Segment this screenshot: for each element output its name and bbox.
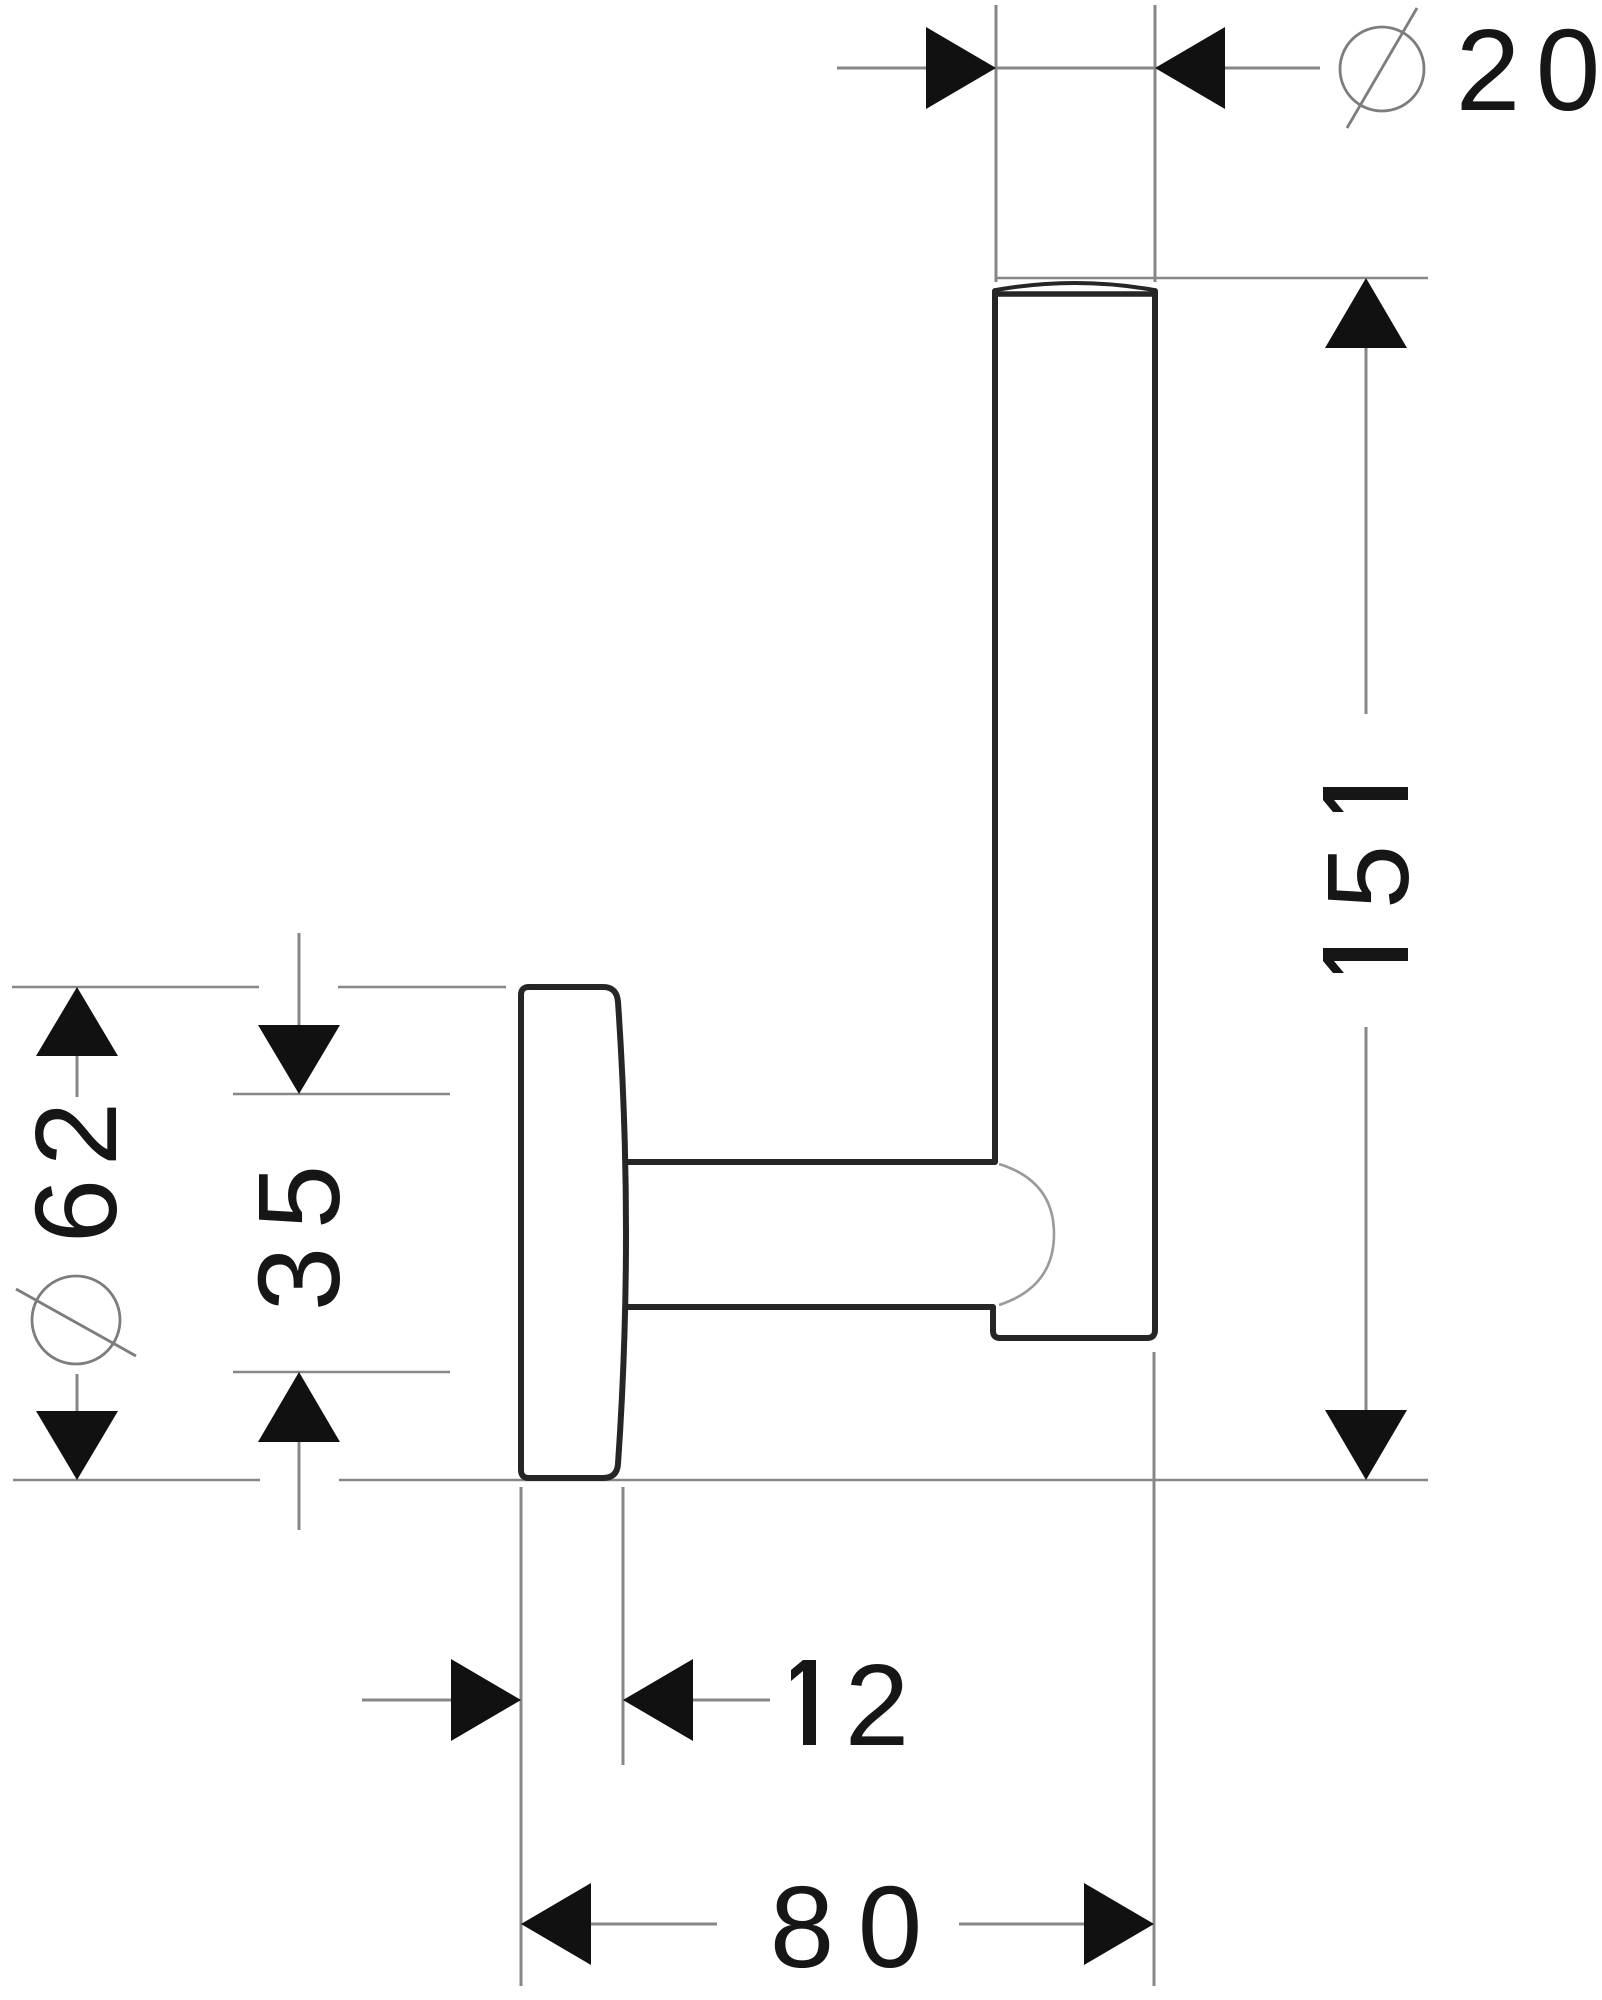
svg-text:3: 3 <box>234 1247 364 1312</box>
svg-text:2: 2 <box>1456 5 1521 135</box>
extension line plate top right part <box>338 986 506 989</box>
svg-text:0: 0 <box>1536 5 1601 135</box>
dim line 80 right segment <box>959 1923 1084 1926</box>
arrow d62 bottom <box>36 1411 118 1480</box>
dim line 12 left segment <box>362 1699 451 1702</box>
dim line 151 upper segment <box>1365 345 1368 714</box>
extension line plate rear (12 right) <box>622 1487 625 1765</box>
arrow d20 left <box>926 27 996 109</box>
dim line 35 lower segment <box>298 1439 301 1530</box>
extension line rod right bottom (80 right) <box>1153 1352 1156 1986</box>
dim line d62 upper segment <box>76 1053 79 1097</box>
svg-text:2: 2 <box>11 1102 141 1167</box>
arrow 151 bottom <box>1325 1410 1407 1480</box>
arrow d62 top <box>36 987 118 1056</box>
label 151 digit 1 upper (rotated) <box>1323 787 1408 812</box>
svg-text:5: 5 <box>1303 845 1433 910</box>
arm end fillet arc (thin) <box>999 1164 1054 1305</box>
dim line 80 left segment <box>591 1923 717 1926</box>
arm top and rod left edge <box>626 291 995 1162</box>
extension line 35 top <box>233 1093 450 1096</box>
d62 symbol <box>16 1276 136 1364</box>
rod top cap lower line <box>997 291 1153 297</box>
extension line 35 bottom <box>233 1371 450 1374</box>
svg-text:6: 6 <box>11 1179 141 1244</box>
extension line wall face (12 left / 80 left) <box>520 1487 523 1986</box>
extension line rod right top <box>1154 5 1157 282</box>
dim line d20 top <box>837 67 1320 70</box>
arrow 35 top <box>258 1025 340 1094</box>
arrow 151 top <box>1325 278 1407 348</box>
dim line d62 lower segment <box>76 1374 79 1414</box>
label 12 digit 1 <box>791 1660 816 1745</box>
custom helvetica-style digit 1 glyphs (no foot serif) <box>791 787 1408 1745</box>
dim line 35 upper segment <box>298 933 301 1028</box>
extension line plate top left <box>12 986 259 989</box>
svg-text:8: 8 <box>770 1862 835 1992</box>
label 151 digit 1 lower (rotated) <box>1323 948 1408 973</box>
arrow 12 right <box>623 1659 693 1741</box>
rod top cap dome <box>996 283 1154 290</box>
dim line 151 lower segment <box>1365 1027 1368 1413</box>
wall plate <box>521 987 626 1478</box>
arrow d20 right <box>1155 27 1225 109</box>
dim line 12 right segment <box>693 1699 770 1702</box>
arrow 80 right <box>1084 1883 1154 1965</box>
arrow 12 left <box>451 1659 521 1741</box>
bottom reference line left segment <box>13 1479 260 1482</box>
bottom reference line right segment (long) <box>339 1479 1428 1482</box>
svg-text:0: 0 <box>858 1862 923 1992</box>
extension line rod top (151 top ref) <box>996 277 1428 280</box>
arrow 80 left <box>521 1883 591 1965</box>
arrow 35 bottom <box>258 1372 340 1442</box>
svg-text:2: 2 <box>845 1640 910 1770</box>
d20 symbol <box>1340 8 1424 128</box>
extension line rod left top <box>995 5 998 282</box>
arm bottom, step, rod bottom, rod right edge <box>626 291 1155 1338</box>
svg-text:5: 5 <box>234 1165 364 1230</box>
